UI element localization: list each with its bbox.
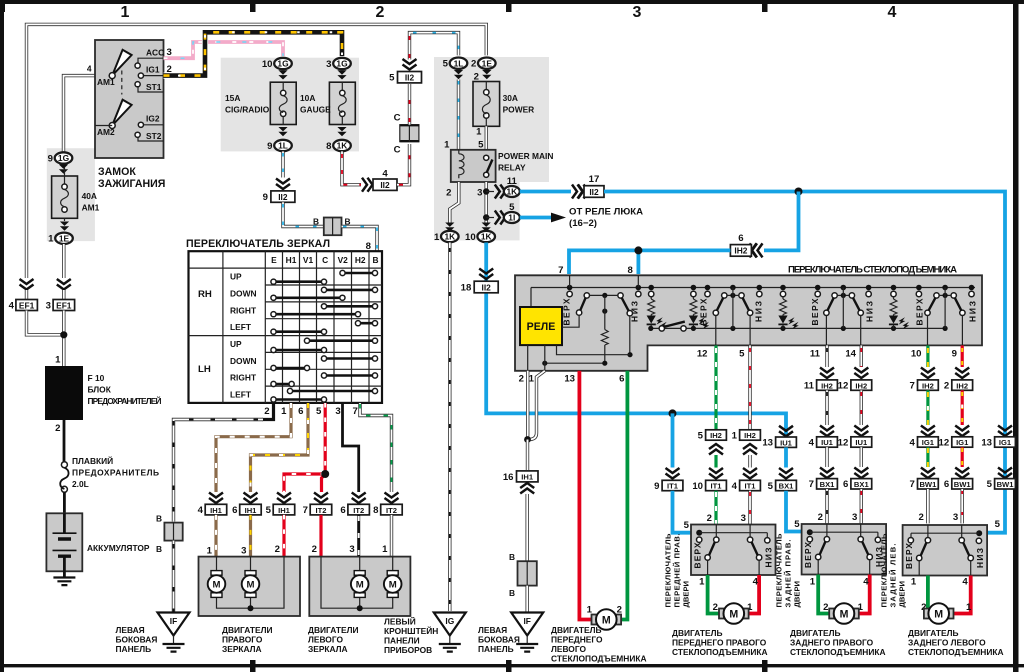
svg-text:II2: II2 xyxy=(482,282,492,292)
mirror motor M4 xyxy=(384,571,402,598)
rear right chain 11: white/black xyxy=(825,345,828,367)
svg-text:ВЕРХ: ВЕРХ xyxy=(810,298,820,325)
wire: pink ACC wire to 10|1G xyxy=(164,42,284,58)
wire: pin 6 green to front left motor xyxy=(618,371,627,620)
svg-text:1: 1 xyxy=(732,430,738,441)
svg-text:3: 3 xyxy=(326,59,331,70)
svg-text:5: 5 xyxy=(684,520,690,531)
svg-text:1G: 1G xyxy=(58,153,69,163)
wire: 9|II2 down and right to B junction xyxy=(283,202,323,226)
svg-text:IH2: IH2 xyxy=(922,381,934,390)
connector 9|1G oval xyxy=(55,152,73,163)
svg-text:В: В xyxy=(313,217,319,227)
svg-text:1: 1 xyxy=(529,374,535,385)
blue stub to sunroof relay xyxy=(520,216,552,220)
svg-text:H2: H2 xyxy=(355,255,366,265)
svg-text:ПЕРЕКЛЮЧАТЕЛЬ СТЕКЛОПОДЪЕМНИКА: ПЕРЕКЛЮЧАТЕЛЬ СТЕКЛОПОДЪЕМНИКА xyxy=(788,265,957,276)
gray panel POWER fuse + relay xyxy=(434,57,549,240)
contact bars LH RIGHT xyxy=(274,376,376,385)
svg-text:5: 5 xyxy=(698,430,704,441)
connector 10|IT1 xyxy=(706,480,727,490)
bus junction dots xyxy=(567,285,975,291)
IF ground triangle 2 xyxy=(511,613,543,636)
fusible link 2.0L xyxy=(63,420,66,462)
LED chain 2 xyxy=(691,291,696,296)
svg-text:E: E xyxy=(271,255,277,265)
svg-text:IT1: IT1 xyxy=(745,482,757,491)
svg-text:10: 10 xyxy=(262,59,273,70)
connector 3|EF1 xyxy=(53,300,75,311)
svg-text:4: 4 xyxy=(198,505,204,516)
rear right window motor xyxy=(829,603,859,624)
svg-text:4: 4 xyxy=(753,577,759,588)
svg-text:2: 2 xyxy=(446,188,451,199)
svg-text:ПЕРЕКЛЮЧАТЕЛЬ: ПЕРЕКЛЮЧАТЕЛЬ xyxy=(664,533,673,608)
svg-text:ДВИГАТЕЛИ: ДВИГАТЕЛИ xyxy=(222,625,272,635)
svg-text:BX1: BX1 xyxy=(820,480,836,489)
svg-text:IT2: IT2 xyxy=(353,506,364,515)
svg-text:1: 1 xyxy=(966,602,972,613)
svg-text:5: 5 xyxy=(987,479,993,490)
svg-text:ПЕРЕДНЕГО ПРАВОГО: ПЕРЕДНЕГО ПРАВОГО xyxy=(672,638,767,648)
svg-text:БОКОВАЯ: БОКОВАЯ xyxy=(116,635,158,645)
svg-text:КРОНШТЕЙН: КРОНШТЕЙН xyxy=(384,625,438,636)
svg-text:IH2: IH2 xyxy=(710,431,722,440)
svg-text:1I: 1I xyxy=(508,213,515,223)
svg-text:ЛЕВОГО: ЛЕВОГО xyxy=(308,635,343,645)
svg-text:3: 3 xyxy=(852,512,857,523)
rear right chain 14: white/red xyxy=(860,345,863,367)
svg-text:40A: 40A xyxy=(82,191,97,201)
rocker 4 (rear left) xyxy=(934,293,939,298)
svg-text:2: 2 xyxy=(713,602,718,613)
wire: 9|1L down white/blue to 9|II2 xyxy=(281,151,284,177)
svg-text:ПРАВОГО: ПРАВОГО xyxy=(222,635,263,645)
wire: 1E down to 3|EF1 xyxy=(62,244,65,278)
svg-text:4: 4 xyxy=(910,437,916,448)
svg-text:IH2: IH2 xyxy=(821,381,833,390)
connector 17|II2 xyxy=(584,186,604,198)
svg-text:C: C xyxy=(394,113,401,124)
svg-text:5: 5 xyxy=(739,349,745,360)
connector 1|IH2 xyxy=(740,430,761,440)
svg-text:11: 11 xyxy=(804,381,815,392)
IF ground triangle (left) xyxy=(158,613,190,636)
svg-text:1G: 1G xyxy=(277,59,288,69)
relay pins down xyxy=(528,345,545,371)
green contact feed line xyxy=(629,316,631,355)
svg-text:IF: IF xyxy=(170,616,177,626)
contact bars LH DOWN xyxy=(274,359,376,369)
svg-text:9: 9 xyxy=(263,192,268,203)
svg-text:6: 6 xyxy=(340,505,345,516)
svg-text:ЗЕРКАЛА: ЗЕРКАЛА xyxy=(308,644,348,654)
master rocker (front left, relay driven) xyxy=(584,293,589,298)
svg-text:ЛЕВАЯ: ЛЕВАЯ xyxy=(478,625,507,635)
fuse 30A POWER xyxy=(473,82,500,127)
svg-text:10: 10 xyxy=(692,481,703,492)
svg-text:IT1: IT1 xyxy=(667,482,679,491)
svg-text:(16−2): (16−2) xyxy=(569,218,597,229)
svg-text:RELAY: RELAY xyxy=(498,163,526,173)
wire below B box to IF ground xyxy=(172,541,175,612)
svg-text:F 10: F 10 xyxy=(88,373,105,383)
svg-text:10: 10 xyxy=(911,349,922,360)
svg-text:4: 4 xyxy=(962,577,968,588)
relay box РЕЛЕ xyxy=(520,307,562,345)
wire: black/yellow IG1 wire to 3|1G xyxy=(164,32,343,75)
svg-text:ЗАЖИГАНИЯ: ЗАЖИГАНИЯ xyxy=(98,178,165,190)
svg-text:IG: IG xyxy=(445,616,454,626)
svg-text:1K: 1K xyxy=(337,141,348,151)
svg-text:IH2: IH2 xyxy=(956,381,968,390)
wire: 4|II2 right, up to capacitor xyxy=(397,144,410,185)
connector arrows above EF1 xyxy=(20,279,34,290)
svg-text:IU1: IU1 xyxy=(855,438,868,447)
svg-text:2: 2 xyxy=(944,381,949,392)
svg-text:14: 14 xyxy=(845,349,856,360)
rocker 3 (rear right) xyxy=(832,293,837,298)
svg-text:3: 3 xyxy=(953,512,958,523)
svg-text:ДВИГАТЕЛЬ: ДВИГАТЕЛЬ xyxy=(672,628,722,638)
svg-text:7: 7 xyxy=(910,479,915,490)
svg-text:IH1: IH1 xyxy=(210,506,223,515)
svg-text:ДВЕРИ: ДВЕРИ xyxy=(898,581,907,607)
svg-text:LH: LH xyxy=(198,364,211,375)
svg-text:9: 9 xyxy=(654,481,659,492)
svg-text:2: 2 xyxy=(707,513,712,524)
svg-text:НИЗ: НИЗ xyxy=(753,301,763,322)
svg-text:7: 7 xyxy=(558,265,563,276)
svg-text:6: 6 xyxy=(738,233,743,244)
connector 4|II2 xyxy=(373,179,397,190)
battery xyxy=(46,513,82,571)
svg-text:15A: 15A xyxy=(225,93,240,103)
svg-text:ПАНЕЛИ: ПАНЕЛИ xyxy=(384,636,420,646)
svg-text:IG2: IG2 xyxy=(146,114,160,124)
branch to 5|1I xyxy=(486,217,494,219)
wire: 5|II2 up, right to 5|1L xyxy=(410,33,459,60)
svg-text:2: 2 xyxy=(818,512,823,523)
svg-text:1K: 1K xyxy=(506,187,517,197)
lower interior line xyxy=(650,327,945,329)
svg-text:13: 13 xyxy=(981,437,992,448)
connector 5|BX1 xyxy=(776,480,797,490)
svg-text:1: 1 xyxy=(48,234,54,245)
connector 18|II2 xyxy=(474,281,498,293)
svg-text:3: 3 xyxy=(46,301,51,312)
svg-text:ЛЕВЫЙ: ЛЕВЫЙ xyxy=(384,616,416,627)
svg-text:6: 6 xyxy=(619,374,624,385)
svg-text:8: 8 xyxy=(326,141,332,152)
svg-text:3: 3 xyxy=(241,546,246,557)
svg-text:СТЕКЛОПОДЪЕМНИКА: СТЕКЛОПОДЪЕМНИКА xyxy=(551,654,647,664)
rear right door switch xyxy=(802,524,887,575)
svg-text:7: 7 xyxy=(910,381,915,392)
svg-text:1L: 1L xyxy=(454,58,464,68)
svg-text:BW1: BW1 xyxy=(997,480,1015,489)
svg-text:1: 1 xyxy=(810,577,816,588)
svg-text:IG1: IG1 xyxy=(999,438,1012,447)
svg-text:11: 11 xyxy=(507,176,518,187)
svg-text:ОТ РЕЛЕ ЛЮКА: ОТ РЕЛЕ ЛЮКА xyxy=(569,207,643,218)
svg-text:ЗАДНЕГО ЛЕВОГО: ЗАДНЕГО ЛЕВОГО xyxy=(908,638,986,648)
svg-text:EF1: EF1 xyxy=(19,300,35,310)
svg-text:2: 2 xyxy=(919,512,924,523)
svg-text:2: 2 xyxy=(471,59,476,70)
svg-text:GAUGE: GAUGE xyxy=(300,105,331,115)
svg-text:BW1: BW1 xyxy=(954,480,972,489)
wire: 8|1K down red-dash, right to 4|II2 xyxy=(342,151,361,184)
ignition switch box xyxy=(95,40,164,158)
svg-text:10A: 10A xyxy=(300,93,315,103)
svg-text:ЗАДНЕГО ПРАВОГО: ЗАДНЕГО ПРАВОГО xyxy=(790,638,874,648)
blue bus junction xyxy=(795,188,803,196)
svg-text:5: 5 xyxy=(443,59,449,70)
svg-text:11: 11 xyxy=(810,349,821,360)
svg-text:12: 12 xyxy=(939,437,950,448)
relay contact xyxy=(484,155,489,160)
svg-text:3: 3 xyxy=(741,513,746,524)
svg-text:ST2: ST2 xyxy=(146,131,162,141)
svg-text:II2: II2 xyxy=(380,180,390,190)
IG1 terminal xyxy=(141,75,164,77)
wire: relay pin3 junctions xyxy=(485,182,488,223)
wire V1: brown/yellow to 6|IH1 xyxy=(251,403,309,492)
svg-text:1: 1 xyxy=(281,406,287,417)
front right window motor xyxy=(719,603,749,624)
svg-text:II2: II2 xyxy=(589,187,599,197)
svg-text:5: 5 xyxy=(316,406,322,417)
svg-text:3: 3 xyxy=(349,544,354,555)
svg-text:IH1: IH1 xyxy=(278,506,291,515)
svg-text:7: 7 xyxy=(809,479,814,490)
svg-text:СТЕКЛОПОДЪЕМНИКА: СТЕКЛОПОДЪЕМНИКА xyxy=(790,647,886,657)
connector 5|II2 xyxy=(398,72,422,83)
mating arrow xyxy=(59,165,68,174)
svg-text:B: B xyxy=(372,255,378,265)
frame border bars xyxy=(0,0,1024,4)
svg-text:1K: 1K xyxy=(444,232,455,242)
connector 10|1G oval xyxy=(274,58,292,69)
svg-text:POWER: POWER xyxy=(503,105,535,115)
svg-text:5: 5 xyxy=(509,202,515,213)
battery ground xyxy=(53,578,75,586)
svg-text:АККУМУЛЯТОР: АККУМУЛЯТОР xyxy=(87,543,150,553)
svg-text:30A: 30A xyxy=(503,93,518,103)
svg-text:LEFT: LEFT xyxy=(230,390,252,400)
svg-text:IT2: IT2 xyxy=(386,506,397,515)
rear left chain 9: red/yellow xyxy=(961,345,964,367)
svg-text:ПЕРЕКЛЮЧАТЕЛЬ: ПЕРЕКЛЮЧАТЕЛЬ xyxy=(880,533,889,608)
svg-text:ДВЕРИ: ДВЕРИ xyxy=(793,581,802,607)
connector 2|1E oval xyxy=(478,58,496,69)
svg-text:БОКОВАЯ: БОКОВАЯ xyxy=(478,635,520,645)
svg-text:ЛЕВАЯ: ЛЕВАЯ xyxy=(116,625,145,635)
wire: EF1 join to F10 xyxy=(27,311,64,367)
blue branch down-left to window switch pins 7/8 xyxy=(764,192,799,251)
svg-text:UP: UP xyxy=(230,339,242,349)
svg-text:5: 5 xyxy=(478,140,484,151)
power window master switch box xyxy=(515,275,982,371)
svg-text:IG1: IG1 xyxy=(922,438,935,447)
svg-text:В: В xyxy=(509,552,515,562)
svg-text:1: 1 xyxy=(476,127,482,138)
svg-text:9: 9 xyxy=(267,141,272,152)
svg-text:ПРИБОРОВ: ПРИБОРОВ xyxy=(384,645,432,655)
svg-text:3: 3 xyxy=(335,406,340,417)
fuse 40A AM1 xyxy=(52,176,78,218)
svg-text:DOWN: DOWN xyxy=(230,356,257,366)
far right blue chain 13|IG1 / 5|BW1 xyxy=(998,426,1012,437)
svg-text:DOWN: DOWN xyxy=(230,289,257,299)
mirror motor M2 xyxy=(242,571,260,598)
contact bars RH LEFT xyxy=(274,323,376,332)
svg-text:6: 6 xyxy=(232,505,237,516)
svg-text:RIGHT: RIGHT xyxy=(230,373,257,383)
svg-text:C: C xyxy=(394,145,401,156)
svg-text:ПЛАВКИЙ: ПЛАВКИЙ xyxy=(72,455,113,466)
wire V2: black to 6|IT2 xyxy=(343,403,359,492)
svg-text:НИЗ: НИЗ xyxy=(864,301,874,322)
wire: POWER fuse to relay pin5 xyxy=(485,126,488,155)
svg-text:6: 6 xyxy=(843,479,848,490)
svg-text:IH2: IH2 xyxy=(744,431,756,440)
ST1 terminal xyxy=(138,87,164,92)
svg-text:ПЕРЕКЛЮЧАТЕЛЬ ЗЕРКАЛ: ПЕРЕКЛЮЧАТЕЛЬ ЗЕРКАЛ xyxy=(186,238,330,250)
gray panel 40A AM1 xyxy=(47,148,95,241)
svg-text:ДВИГАТЕЛИ: ДВИГАТЕЛИ xyxy=(308,625,358,635)
svg-text:4: 4 xyxy=(87,64,92,74)
svg-text:7: 7 xyxy=(303,505,308,516)
connector 9|II2 xyxy=(271,191,295,202)
svg-text:ПАНЕЛЬ: ПАНЕЛЬ xyxy=(116,644,152,654)
svg-text:1: 1 xyxy=(434,232,440,243)
svg-text:3: 3 xyxy=(633,4,642,21)
gray panel CIG/GAUGE fuses xyxy=(221,58,359,152)
front right switch pin wires to motor xyxy=(708,575,723,614)
front right door switch xyxy=(691,525,776,576)
B junction box (mirror circuit) xyxy=(324,218,342,236)
svg-text:IH1: IH1 xyxy=(521,473,534,482)
mating arrows below fuses xyxy=(278,127,287,136)
svg-text:UP: UP xyxy=(230,272,242,282)
svg-text:4: 4 xyxy=(863,577,869,588)
rear left window motor xyxy=(924,603,954,624)
svg-text:POWER MAIN: POWER MAIN xyxy=(498,151,553,161)
svg-text:EF1: EF1 xyxy=(56,300,72,310)
connector 6|IH2 xyxy=(730,245,751,257)
wire: pin 13 red to front left motor xyxy=(579,371,595,620)
svg-text:ST1: ST1 xyxy=(146,82,162,92)
svg-text:17: 17 xyxy=(589,174,600,185)
wire: 1K down to IG ground (white w/black dash) xyxy=(448,243,451,612)
blue bus from 11|1K to right xyxy=(520,190,571,194)
wire C: red/white split to 5|IH1 and 7|IT2 xyxy=(284,403,325,492)
svg-text:ДВИГАТЕЛЬ: ДВИГАТЕЛЬ xyxy=(908,628,958,638)
LED chain 3 xyxy=(780,291,785,296)
svg-text:2: 2 xyxy=(312,544,317,555)
IG2 terminal xyxy=(141,124,164,126)
svg-text:8: 8 xyxy=(373,505,379,516)
B junction box 3 xyxy=(518,561,537,585)
svg-text:BW1: BW1 xyxy=(919,480,937,489)
svg-text:13: 13 xyxy=(564,374,575,385)
svg-text:ЛЕВОГО: ЛЕВОГО xyxy=(551,644,586,654)
svg-text:СТЕКЛОПОДЪЕМНИКА: СТЕКЛОПОДЪЕМНИКА xyxy=(908,647,1004,657)
svg-text:4: 4 xyxy=(382,169,388,180)
svg-text:ДВЕРИ: ДВЕРИ xyxy=(682,581,691,607)
svg-text:6: 6 xyxy=(944,479,949,490)
svg-text:В: В xyxy=(156,514,162,524)
svg-text:LEFT: LEFT xyxy=(230,322,252,332)
svg-text:IH2: IH2 xyxy=(734,246,747,256)
right mirror motors box xyxy=(199,557,301,616)
svg-text:8: 8 xyxy=(627,265,633,276)
svg-text:V2: V2 xyxy=(338,255,349,265)
svg-text:18: 18 xyxy=(461,283,472,294)
wire: AM1 pin4 white wire to 9|1G xyxy=(64,76,96,153)
illumination blade switch xyxy=(659,326,664,331)
svg-text:AM1: AM1 xyxy=(97,77,115,87)
wire: relay pin2 to 1|1K xyxy=(450,182,459,223)
blue chain 13|IU1 / 5|BX1 to rear right pin 5 xyxy=(779,426,793,437)
svg-text:C: C xyxy=(322,255,328,265)
svg-text:ВЕРХ: ВЕРХ xyxy=(915,298,925,325)
connector 3|1G oval xyxy=(333,58,351,69)
rocker 2 (front right) xyxy=(722,293,727,298)
svg-text:7: 7 xyxy=(352,406,357,417)
svg-text:2: 2 xyxy=(823,602,828,613)
svg-text:5: 5 xyxy=(266,505,272,516)
svg-text:1G: 1G xyxy=(336,59,347,69)
svg-text:ПЕРЕДНЕЙ ПРАВ.: ПЕРЕДНЕЙ ПРАВ. xyxy=(673,534,682,608)
svg-text:4: 4 xyxy=(809,437,815,448)
connector 5|IH2 xyxy=(706,430,727,440)
relay coil xyxy=(459,150,464,178)
svg-text:10: 10 xyxy=(465,232,476,243)
contact bars RH RIGHT xyxy=(274,306,376,314)
svg-text:IU1: IU1 xyxy=(821,438,834,447)
svg-text:6: 6 xyxy=(298,406,303,417)
svg-text:AM2: AM2 xyxy=(97,127,115,137)
resistor under master rocker xyxy=(604,311,606,329)
svg-text:ПРЕДОХРАНИТЕЛЕЙ: ПРЕДОХРАНИТЕЛЕЙ xyxy=(88,395,162,406)
connector 1|1K oval xyxy=(441,231,459,242)
svg-text:2.0L: 2.0L xyxy=(72,479,89,489)
svg-text:ВЕРХ: ВЕРХ xyxy=(561,298,571,325)
svg-text:ПАНЕЛЬ: ПАНЕЛЬ xyxy=(478,644,514,654)
B junction box 2 (left) xyxy=(164,523,182,541)
svg-text:В: В xyxy=(156,544,162,554)
svg-text:ДВИГАТЕЛЬ: ДВИГАТЕЛЬ xyxy=(551,625,601,635)
svg-text:ЗАДНЕЙ ЛЕВ.: ЗАДНЕЙ ЛЕВ. xyxy=(889,544,898,608)
wire: pin 12 green/white chain xyxy=(714,345,717,429)
connector 16|IH1 xyxy=(517,471,539,482)
wire: 5|1L to relay pin1 (white/blue) xyxy=(457,80,460,151)
svg-text:RIGHT: RIGHT xyxy=(230,306,257,316)
svg-text:НИЗ: НИЗ xyxy=(967,301,977,322)
rocker to relay link xyxy=(562,315,579,327)
svg-text:RH: RH xyxy=(198,289,212,300)
svg-text:1: 1 xyxy=(444,140,450,151)
branch to 11|1K xyxy=(486,191,494,193)
connector 13|IU1 xyxy=(776,437,797,447)
svg-text:IH1: IH1 xyxy=(245,506,258,515)
switch internal bus xyxy=(531,288,975,308)
POWER MAIN RELAY box xyxy=(451,150,496,182)
svg-text:ДВИГАТЕЛЬ: ДВИГАТЕЛЬ xyxy=(790,628,840,638)
